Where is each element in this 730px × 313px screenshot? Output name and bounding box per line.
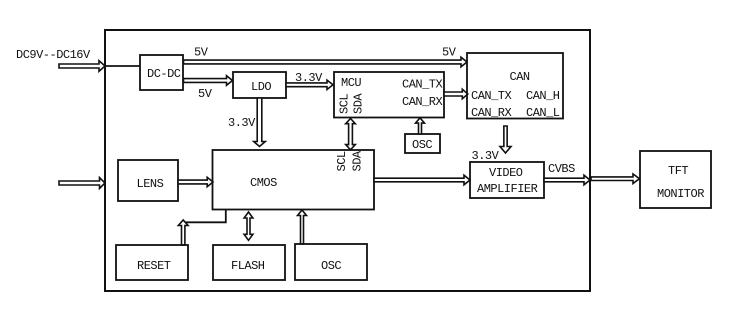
svg-text:SCL: SCL [338,94,352,114]
wire: module edge to DC-DC [105,65,140,67]
wire: RESET up arrow [178,220,188,245]
svg-text:TFT: TFT [668,164,688,178]
wire: 5V bus DC-DC to CAN (hollow arrow) [184,57,468,67]
block CAN transceiver [467,53,563,119]
wire: CAN down to video out (hollow arrow) [500,126,511,153]
svg-text:3.3V: 3.3V [228,116,256,130]
svg-text:SCL: SCL [335,151,349,171]
svg-text:AMPLIFIER: AMPLIFIER [477,182,538,196]
wire: RESET net to CMOS [183,210,226,222]
svg-text:DC9V--DC16V: DC9V--DC16V [16,48,91,62]
svg-text:CAN_TX: CAN_TX [471,89,512,103]
block RESET [116,245,188,280]
block OSC (CMOS oscillator) [295,244,367,280]
wire: OSC up to MCU (hollow arrow) [416,118,425,134]
wire: FLASH to CMOS (double-headed hollow arrow) [244,212,253,240]
wire: VIDEO AMPLIFIER to module edge CVBS (hollow arrow) [544,175,590,185]
outer module boundary [105,30,590,291]
svg-text:OSC: OSC [321,259,341,273]
block MCU [334,72,444,118]
wire: LDO down to CMOS 3.3V (hollow arrow) [254,98,266,147]
svg-text:FLASH: FLASH [231,259,265,273]
svg-text:CAN_RX: CAN_RX [402,95,443,109]
wire: DC-DC to LDO 5V (hollow arrow) [184,76,233,86]
svg-text:5V: 5V [194,46,209,60]
svg-text:3.3V: 3.3V [472,149,500,163]
wire: video input arrow into module [59,178,105,189]
wire: OSC up to CMOS (hollow arrow) [298,210,307,244]
block OSC (MCU oscillator) [405,134,440,153]
block DC-DC [140,55,183,90]
block VIDEO AMPLIFIER [470,162,544,198]
svg-text:CAN_L: CAN_L [526,106,560,120]
svg-text:CAN_TX: CAN_TX [402,78,443,92]
svg-text:DC-DC: DC-DC [147,67,181,81]
svg-text:5V: 5V [198,87,213,101]
wire: module edge to TFT MONITOR (hollow arrow) [591,174,640,184]
wire: power input arrow into module [59,61,105,72]
svg-text:CMOS: CMOS [250,176,277,190]
block CMOS sensor [213,150,375,210]
block LENS [118,160,178,201]
svg-text:CAN_RX: CAN_RX [471,106,512,120]
svg-text:CAN: CAN [510,70,530,84]
svg-text:LENS: LENS [137,177,164,191]
block TFT MONITOR [640,151,711,208]
svg-text:CAN_H: CAN_H [526,89,560,103]
svg-text:RESET: RESET [137,259,171,273]
svg-text:CVBS: CVBS [548,162,575,176]
wire: MCU to CAN (hollow arrow) [444,89,468,99]
svg-text:5V: 5V [442,46,457,60]
svg-text:MCU: MCU [341,76,361,90]
wire: CMOS to VIDEO AMPLIFIER (hollow arrow) [374,175,470,185]
svg-text:MONITOR: MONITOR [657,187,704,201]
svg-text:SDA: SDA [352,93,366,114]
block LDO [233,72,286,98]
block FLASH [213,245,285,280]
wire: MCU to CMOS SCL/SDA (double-headed hollow arrow) [346,119,356,150]
svg-text:OSC: OSC [412,138,432,152]
svg-text:SDA: SDA [351,150,365,171]
wire: LDO to MCU 3.3V (hollow arrow) [286,80,333,89]
svg-text:VIDEO: VIDEO [489,166,523,180]
svg-text:LDO: LDO [251,80,271,94]
wire: LENS to CMOS (hollow arrow) [178,177,213,186]
